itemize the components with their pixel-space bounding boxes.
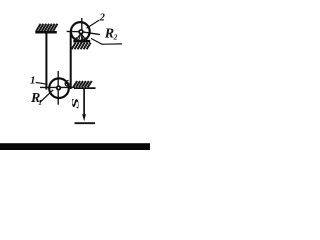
pulley 1 hub bbox=[57, 86, 61, 90]
force line S bbox=[83, 89, 85, 116]
leader line label R1 bbox=[40, 90, 53, 102]
radius ray R2 bbox=[91, 38, 122, 44]
stop bar under arrow bbox=[75, 122, 96, 124]
wall hatching under pulley 2 bbox=[72, 43, 91, 50]
svg-text:2: 2 bbox=[113, 33, 118, 42]
ceiling hatching top-left bbox=[36, 24, 57, 31]
svg-text:1: 1 bbox=[38, 98, 42, 107]
arrowhead S bbox=[82, 114, 86, 121]
wire rope left (ceiling to pulley 1) bbox=[45, 33, 47, 89]
svg-text:1: 1 bbox=[30, 75, 36, 87]
svg-text:2: 2 bbox=[99, 13, 106, 24]
leader line label 1 bbox=[36, 82, 48, 84]
pulley 1 axis crosshair bbox=[40, 71, 75, 105]
pulley 2 hub bbox=[79, 30, 83, 34]
svg-text:S: S bbox=[71, 98, 81, 109]
svg-text:R: R bbox=[104, 27, 114, 42]
bracket base line bbox=[73, 40, 90, 43]
ceiling bar right mount bbox=[74, 87, 96, 89]
pulley 1 rim bbox=[49, 78, 69, 98]
wall hatching right mount bbox=[73, 81, 92, 87]
wire rope middle (pulley 2 to pulley 1) bbox=[70, 32, 72, 89]
pulley 2 axis crosshair bbox=[67, 18, 100, 44]
black page edge bottom bbox=[0, 143, 150, 150]
ceiling bar top-left bbox=[35, 31, 57, 34]
leader line label 2 bbox=[87, 20, 100, 28]
pivot bracket under pulley 2 bbox=[74, 33, 87, 41]
rope end curl inside pulley 1 bbox=[65, 80, 69, 86]
pulley 2 rim bbox=[71, 22, 90, 41]
